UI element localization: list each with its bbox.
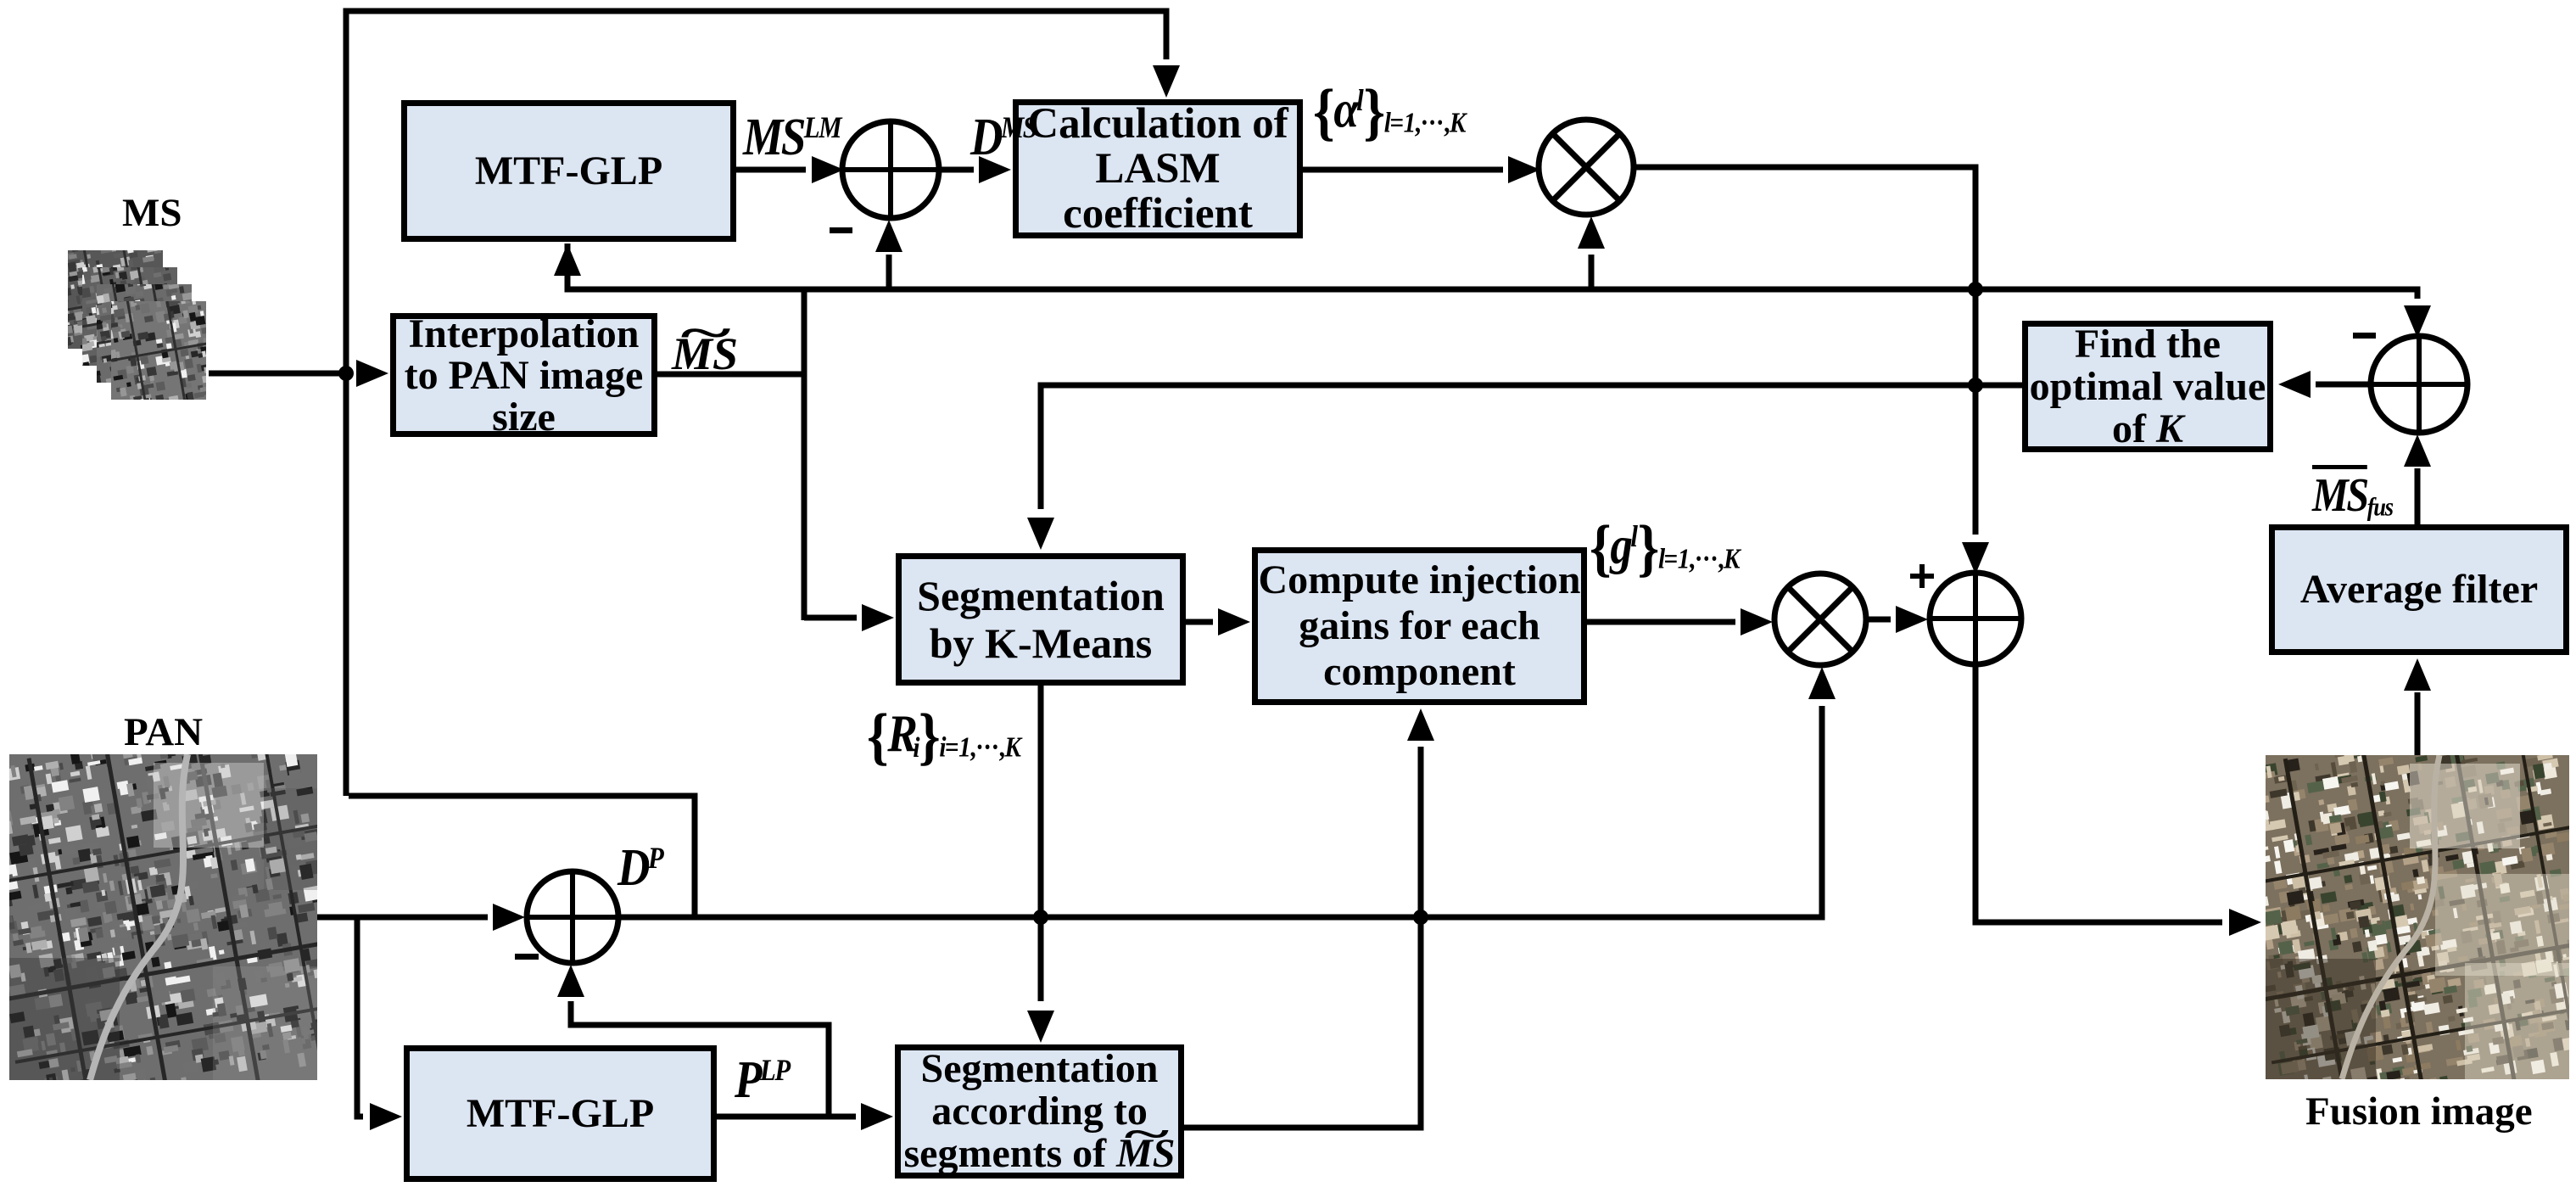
label: alpha coefficient set bbox=[1313, 76, 1489, 149]
multiplier middle (g^l product) bbox=[1774, 574, 1866, 665]
process box: Find the optimal value of K bbox=[2022, 321, 2273, 452]
plus sign at middle adder bbox=[1910, 574, 1934, 579]
process box: Segmentation according to segments of MS-tilde bbox=[895, 1044, 1184, 1179]
junction dot: R_i line x D^P wire bbox=[1033, 910, 1048, 925]
process box: Average filter bbox=[2269, 524, 2569, 655]
label: g^l gain set bbox=[1590, 512, 1763, 585]
wire: Compute-gains output g^l to middle multiplier bbox=[1587, 619, 1735, 625]
wire: R_i from K-Means down to Segmentation-according box bbox=[1038, 686, 1044, 1001]
wire: MS-tilde bus y=341 from MTF-GLP riser to right adder bbox=[567, 244, 2417, 299]
wire: Fusion image up into Average filter bbox=[2415, 692, 2421, 755]
junction dot: MS wire x D^P riser bbox=[338, 366, 354, 381]
adder bottom-left (D^P) bbox=[527, 871, 618, 963]
process box: Calculation of LASM coefficient bbox=[1013, 99, 1303, 238]
wire: bottom MTF-GLP output P^LP into Segmentation-according box bbox=[717, 1114, 856, 1120]
wire: P^LP elbow up into D^P adder minus input bbox=[571, 1001, 829, 1117]
wire: MS-tilde into K-Means left bbox=[804, 615, 857, 621]
wire: D^P long run to middle multiplier riser bbox=[618, 706, 1822, 917]
PAN input image (panchromatic thumbnail) bbox=[9, 754, 317, 1080]
label: D^MS bbox=[970, 108, 1048, 168]
minus sign at top adder bbox=[830, 227, 852, 233]
process box: MTF-GLP (bottom) bbox=[404, 1045, 717, 1182]
minus sign at right adder bbox=[2353, 333, 2376, 339]
wire: PAN branch down into bottom MTF-GLP bbox=[357, 917, 363, 1117]
wire: middle multiplier output to middle adder bbox=[1866, 617, 1891, 623]
wire: middle adder output down then right into Fusion image bbox=[1975, 664, 2222, 922]
multiplier top (alpha product) bbox=[1539, 120, 1634, 215]
wire: Average filter output MS_fus up into right adder bbox=[2415, 468, 2421, 524]
wire: Segmentation-according output up into Compute-gains bottom bbox=[1184, 747, 1421, 1128]
wire: K-Means output to Compute-gains box bbox=[1186, 619, 1213, 625]
process box: MTF-GLP (top) bbox=[401, 100, 736, 242]
wire: D^P adder output elbow up-left bbox=[349, 796, 695, 915]
process box: Segmentation by K-Means bbox=[896, 553, 1186, 686]
process box: Interpolation to PAN image size bbox=[390, 313, 657, 437]
wire: adder output D^MS into LASM box bbox=[939, 167, 974, 173]
wire: riser from bus up into top adder minus input bbox=[886, 255, 892, 289]
label: MS_fus bbox=[2312, 468, 2406, 523]
wire: PAN image to D^P adder bbox=[317, 915, 488, 921]
wire: D^P feedback top run into LASM box top bbox=[346, 11, 1166, 796]
wire: Interpolation output MS-tilde to distribution node bbox=[657, 372, 804, 378]
wire: MS input into Interpolation box bbox=[209, 371, 349, 377]
label: PAN input bbox=[124, 709, 203, 755]
label: P^LP bbox=[735, 1050, 800, 1111]
process box: Compute injection gains for each component bbox=[1252, 547, 1587, 705]
wire: riser from bus up into top multiplier bottom input bbox=[1589, 255, 1595, 289]
wire: MTF-GLP(top) output MS^LM to adder bbox=[736, 167, 806, 173]
wire: LASM output alpha to top multiplier bbox=[1303, 167, 1503, 173]
label: R_i segment set bbox=[867, 701, 1045, 774]
junction dot: product line x K wire bbox=[1968, 378, 1983, 393]
MS input image (stack of four multispectral band thumbnails) bbox=[68, 250, 163, 349]
label: MS^LM bbox=[743, 108, 858, 168]
adder right (optimal K error) bbox=[2371, 336, 2467, 433]
wire: K value from Find box to K-Means top bbox=[1041, 385, 2022, 509]
wire: MS-tilde vertical distribution x=948 bbox=[802, 289, 807, 620]
label: Fusion image bbox=[2305, 1089, 2533, 1134]
minus sign at D^P adder bbox=[515, 954, 539, 960]
label: MS input bbox=[122, 190, 182, 236]
adder middle (fusion sum) bbox=[1930, 573, 2021, 664]
junction dot: product line x MS-tilde bus bbox=[1968, 282, 1983, 297]
Fusion image (colour fused thumbnail) bbox=[2266, 755, 2569, 1079]
label: D^P bbox=[617, 838, 671, 899]
adder top (D^MS) bbox=[842, 121, 939, 218]
junction dot: gains riser x D^P wire bbox=[1413, 910, 1428, 925]
wire: right adder output into Find box bbox=[2316, 382, 2371, 388]
label: MS-tilde bbox=[672, 328, 738, 380]
wire: top multiplier output right then down to middle adder bbox=[1634, 167, 1975, 535]
